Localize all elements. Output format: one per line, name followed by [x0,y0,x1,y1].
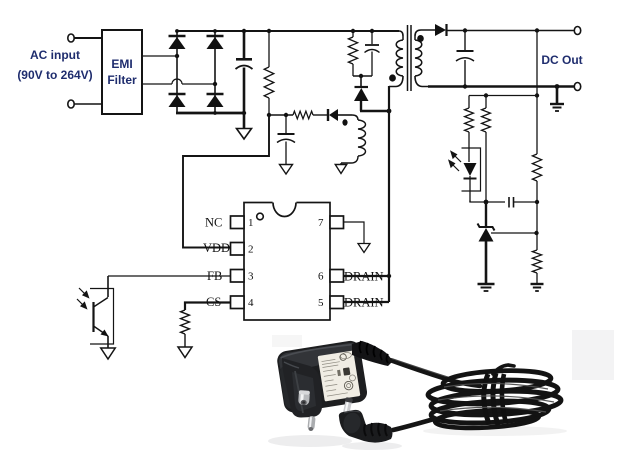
photo: barrel plug tip [342,397,353,417]
wire [421,29,435,31]
wire reference [491,232,537,234]
photo: barrel plug body [339,410,393,443]
pin 6 [330,270,344,283]
pin labels [203,216,384,310]
wire snubber bottom [353,75,372,77]
wire pin6 to drain bus [344,275,389,277]
node bridge AC right [213,82,217,86]
photo: plug pin 1 [298,390,310,405]
capacitor C2 (VDD filter) [285,115,287,133]
bridge left leg wire [176,31,178,113]
ground opto emitter [101,348,116,359]
svg-text:NC: NC [205,216,222,230]
earth ground shunt [478,283,495,285]
bridge diode D3 (bottom-left) [169,93,186,96]
wire FB [108,275,231,277]
photo: cable wrap around bundle [484,373,506,425]
wire CS [185,303,231,311]
startup resistor R1 [268,31,270,67]
node VDD junction [267,113,271,117]
AC input terminal top [68,34,74,42]
node [535,28,539,32]
DC+ rail [446,30,575,32]
photo: cable adapter to coil [390,360,480,386]
wire AC bottom to EMI [75,103,103,105]
opto LED U2a [464,163,477,176]
svg-text:7: 7 [318,217,324,229]
ground below C2 [280,165,293,175]
resistor R5 (lower divider) [532,250,541,273]
capacitor C5 (feedback) [508,197,510,208]
output capacitor C4 [464,31,466,51]
node snubber R top [351,29,355,33]
snubber diode D6 [355,86,369,88]
svg-text:5: 5 [318,297,324,309]
node C4 top [463,28,467,32]
svg-text:EMI: EMI [111,57,132,71]
ground bias winding [340,163,342,165]
node bridge AC left [175,54,179,58]
opto transistor U2b box [90,289,114,345]
photo: cable coil to barrel [393,419,434,430]
resistor R6 (LED series) [465,108,474,132]
bridge diode D2 (top-right) [207,35,224,38]
transformer T1 secondary [415,30,421,36]
wire divider tap [536,31,538,155]
phase dot bias winding [342,119,347,125]
svg-text:3: 3 [248,271,254,283]
svg-text:2: 2 [248,244,254,256]
svg-text:(90V to 264V): (90V to 264V) [17,68,92,82]
resistor R8 (CS sense) [181,310,190,334]
bias winding L1 [352,115,358,120]
bulk capacitor C1 [243,31,246,58]
AC input terminal bottom [68,100,74,108]
node [484,200,489,205]
node C4 bottom [463,84,467,88]
svg-text:Filter: Filter [107,73,137,87]
wire emitter to ground [107,336,109,348]
wire VDD to IC pin2 [183,115,269,248]
wire collector [107,276,109,297]
pin 2 [231,243,245,256]
IC notch [273,201,297,204]
pin numbers [248,217,324,309]
wire [468,96,470,109]
pin 3 [231,270,245,283]
node drain [387,109,392,114]
opto LED box [462,148,481,191]
transformer T1 primary [399,31,403,36]
DC out terminal bottom [574,83,580,91]
wire pin5 to drain bus [344,301,389,303]
shunt regulator U3 (zener) [485,202,487,227]
pin 1 [231,216,245,229]
DC out terminal top [574,27,580,35]
phase dot secondary [417,35,424,42]
wire EMI out bottom with hop over left bridge leg [142,83,172,85]
node divider upper [535,200,539,204]
snubber capacitor C3 [371,31,373,44]
node bridge bottom right [213,111,217,115]
EMI filter box [102,30,142,114]
earth ground DC- [556,87,559,105]
bridge diode D1 (top-left) [169,35,186,38]
wire drain junction [360,101,362,111]
node [555,84,560,89]
svg-text:VDD: VDD [203,241,230,255]
wire AC top to EMI [75,37,103,39]
wire [338,114,352,116]
bridge negative rail (thick) [176,112,245,115]
photo: shadows [268,435,352,447]
svg-text:AC input: AC input [30,48,80,62]
svg-text:6: 6 [318,271,324,283]
wire drain bus [388,86,390,302]
pin 5 [330,296,344,309]
photo: light grey backdrops [572,330,614,380]
opto transistor U2b [92,302,94,332]
photo: strain relief [352,341,392,366]
phase dot primary [389,74,396,81]
LED light arrows [449,152,461,172]
photo: coiled cable [428,368,562,430]
node snubber C top [370,29,374,33]
photo: adapter label [318,350,361,401]
wire [470,201,486,203]
wire [269,114,293,116]
svg-text:DC Out: DC Out [541,53,582,67]
light arrows into transistor [77,288,89,309]
photo: plug pin 2 [307,416,316,432]
bridge diode D4 (bottom-right) [207,93,224,96]
wire [313,114,328,116]
HV+ top rail [177,30,399,32]
resistor R4 (upper divider) [532,154,541,181]
svg-text:1: 1 [248,217,254,229]
pin 7 [330,216,344,229]
transformer core [407,25,409,91]
op IC U1 body [244,203,330,321]
wire pin7 to ground [344,222,364,243]
wire [486,201,505,203]
ground below bulk cap [243,113,246,128]
photo: plug block [282,358,322,418]
photo: pigtail stub [493,365,514,374]
snubber resistor R3 [352,31,354,37]
wire EMI out top [142,55,177,57]
resistor R7 (LED bypass) [485,96,487,109]
IC pin1 indicator [257,213,264,220]
diode D7 (output rectifier) [435,24,446,36]
ground pin7 [358,244,370,253]
node bridge top left [175,29,179,33]
pin 4 [231,296,245,309]
ground CS resistor [178,347,192,358]
photo: coil highlights [438,383,554,412]
node bridge top right [213,29,217,33]
resistor R2 (VDD series) [293,111,313,119]
wire [469,95,537,97]
DC- rail (thick) [428,85,575,88]
photo: adapter body [276,339,369,413]
svg-text:4: 4 [248,297,254,309]
bridge right leg wire [214,31,216,113]
node divider ref [534,231,538,235]
earth ground divider [531,283,544,285]
diode D5 (VDD rectifier, pointing left) [327,109,329,121]
